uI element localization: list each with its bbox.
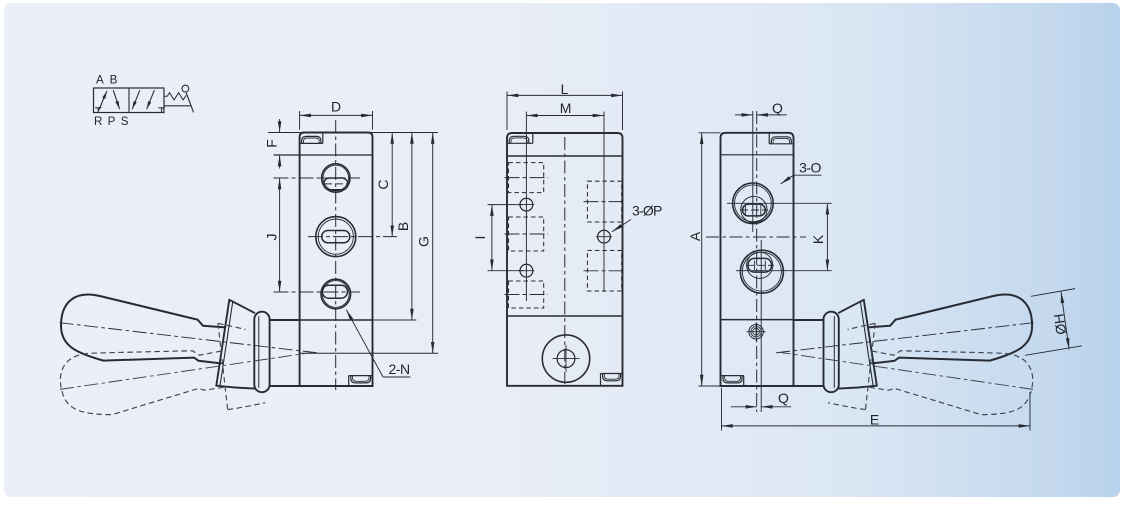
top-left mounting tab bbox=[300, 133, 323, 144]
svg-text:K: K bbox=[810, 234, 826, 244]
cap edge line bbox=[274, 154, 373, 156]
port A (upper) bbox=[727, 183, 832, 224]
svg-text:F: F bbox=[264, 139, 280, 148]
body outline bbox=[507, 133, 623, 386]
svg-text:L: L bbox=[561, 81, 569, 97]
svg-text:A: A bbox=[687, 231, 703, 241]
dimension A bbox=[699, 133, 721, 386]
set screw bbox=[747, 323, 766, 342]
3-O leader bbox=[781, 175, 822, 184]
view 2 labels bbox=[472, 81, 662, 239]
vertical centerline bbox=[335, 120, 337, 390]
mounting hole 3 (right) bbox=[596, 230, 612, 243]
left cell arrow 2 bbox=[113, 91, 119, 109]
svg-text:D: D bbox=[331, 99, 341, 115]
port R (top) bbox=[274, 164, 361, 192]
dimension I bbox=[488, 205, 524, 271]
mount connection lines bbox=[270, 319, 300, 321]
dashed lever view 3 (mirrored + rotated down) bbox=[771, 297, 1040, 453]
dimension B bbox=[411, 133, 413, 321]
right cell seat T bbox=[159, 108, 165, 113]
knob + stem outline bbox=[61, 295, 225, 364]
port B (lower) bbox=[736, 250, 832, 293]
boot ring bbox=[254, 312, 269, 393]
port S (bottom) bbox=[274, 279, 361, 309]
svg-text:Q: Q bbox=[778, 390, 789, 406]
dimension M bbox=[526, 115, 604, 117]
body outline bbox=[721, 133, 794, 386]
svg-text:M: M bbox=[560, 100, 572, 116]
mid section line + B extension bbox=[300, 319, 373, 321]
pivot boss circle (bottom) bbox=[542, 335, 589, 382]
body outline bbox=[300, 133, 373, 387]
dimension F bbox=[274, 119, 287, 169]
dimension Q (bottom) bbox=[731, 406, 791, 408]
svg-text:Q: Q bbox=[772, 100, 783, 116]
dimension J bbox=[279, 178, 281, 292]
dimension E bbox=[722, 388, 1031, 431]
mid horizontal centerline bbox=[706, 236, 806, 238]
lever axis centerline bbox=[60, 323, 318, 353]
svg-text:RPS: RPS bbox=[94, 115, 129, 128]
mounting hole 1 bbox=[519, 198, 535, 211]
lower stem axis line bbox=[760, 240, 762, 412]
solid lever view 3 (mirror of view-1 lever) bbox=[775, 295, 1033, 393]
2-N leader bbox=[346, 310, 410, 377]
bottom-left mounting tab bbox=[721, 376, 744, 386]
svg-text:C: C bbox=[375, 179, 391, 189]
lever arm bbox=[186, 93, 193, 112]
valve body boxes bbox=[94, 88, 165, 113]
mounting hole 2 bbox=[519, 264, 535, 277]
cap edge line bbox=[721, 154, 794, 156]
top-left mounting tab bbox=[507, 133, 533, 143]
left cell arrow 1 bbox=[99, 91, 107, 110]
pivot plane line + G extension bbox=[300, 352, 438, 354]
svg-text:G: G bbox=[416, 236, 432, 247]
lever base line bbox=[164, 105, 191, 107]
3-ØP leader bbox=[612, 220, 631, 232]
boot cone top edge bbox=[229, 300, 254, 313]
svg-text:3-O: 3-O bbox=[799, 160, 821, 176]
boot cone bottom edge bbox=[216, 386, 254, 389]
dimension K bbox=[826, 203, 828, 270]
dimension C bbox=[391, 133, 393, 237]
svg-text:2-N: 2-N bbox=[389, 361, 410, 377]
dimension Q (top) bbox=[735, 114, 787, 116]
bottom-right mounting tab bbox=[601, 374, 623, 386]
vertical centerline bbox=[564, 137, 566, 384]
right cell arrow 2 bbox=[147, 91, 154, 109]
body centerline bbox=[756, 111, 758, 412]
dimension L bbox=[507, 92, 623, 131]
dimension G bbox=[432, 133, 434, 354]
mid section line bbox=[721, 319, 794, 321]
upper stem axis line bbox=[752, 111, 754, 232]
spring zigzag bbox=[164, 93, 186, 100]
port P (middle) bbox=[308, 217, 397, 257]
dimension ØH bbox=[1025, 289, 1082, 356]
dimension D bbox=[300, 111, 373, 130]
mid section line bbox=[507, 315, 623, 317]
svg-text:I: I bbox=[472, 236, 488, 240]
svg-text:3-ØP: 3-ØP bbox=[632, 202, 662, 218]
symbol labels bbox=[94, 73, 129, 128]
boss centerlines bbox=[505, 178, 626, 295]
bottom-right mounting tab bbox=[349, 376, 373, 386]
svg-text:ØH: ØH bbox=[1050, 313, 1069, 336]
view 3 labels bbox=[687, 100, 1069, 428]
top-right mounting tab bbox=[769, 133, 793, 144]
boot rim lines bbox=[216, 300, 229, 386]
right cell arrow 1 bbox=[132, 91, 139, 109]
mounting hole centerlines (M extensions) bbox=[525, 112, 527, 302]
left cell exhaust T bbox=[96, 108, 102, 113]
hidden port boss R (left top, dashed) bbox=[509, 163, 622, 308]
svg-text:B: B bbox=[395, 222, 411, 231]
cap edge line bbox=[507, 155, 623, 157]
dashed lever (rotated down position, view 1) bbox=[53, 297, 322, 453]
view 1 labels bbox=[264, 99, 432, 377]
lever circle bbox=[182, 85, 189, 92]
svg-text:J: J bbox=[264, 234, 280, 241]
svg-text:E: E bbox=[870, 411, 879, 427]
top face extension line bbox=[268, 132, 438, 134]
